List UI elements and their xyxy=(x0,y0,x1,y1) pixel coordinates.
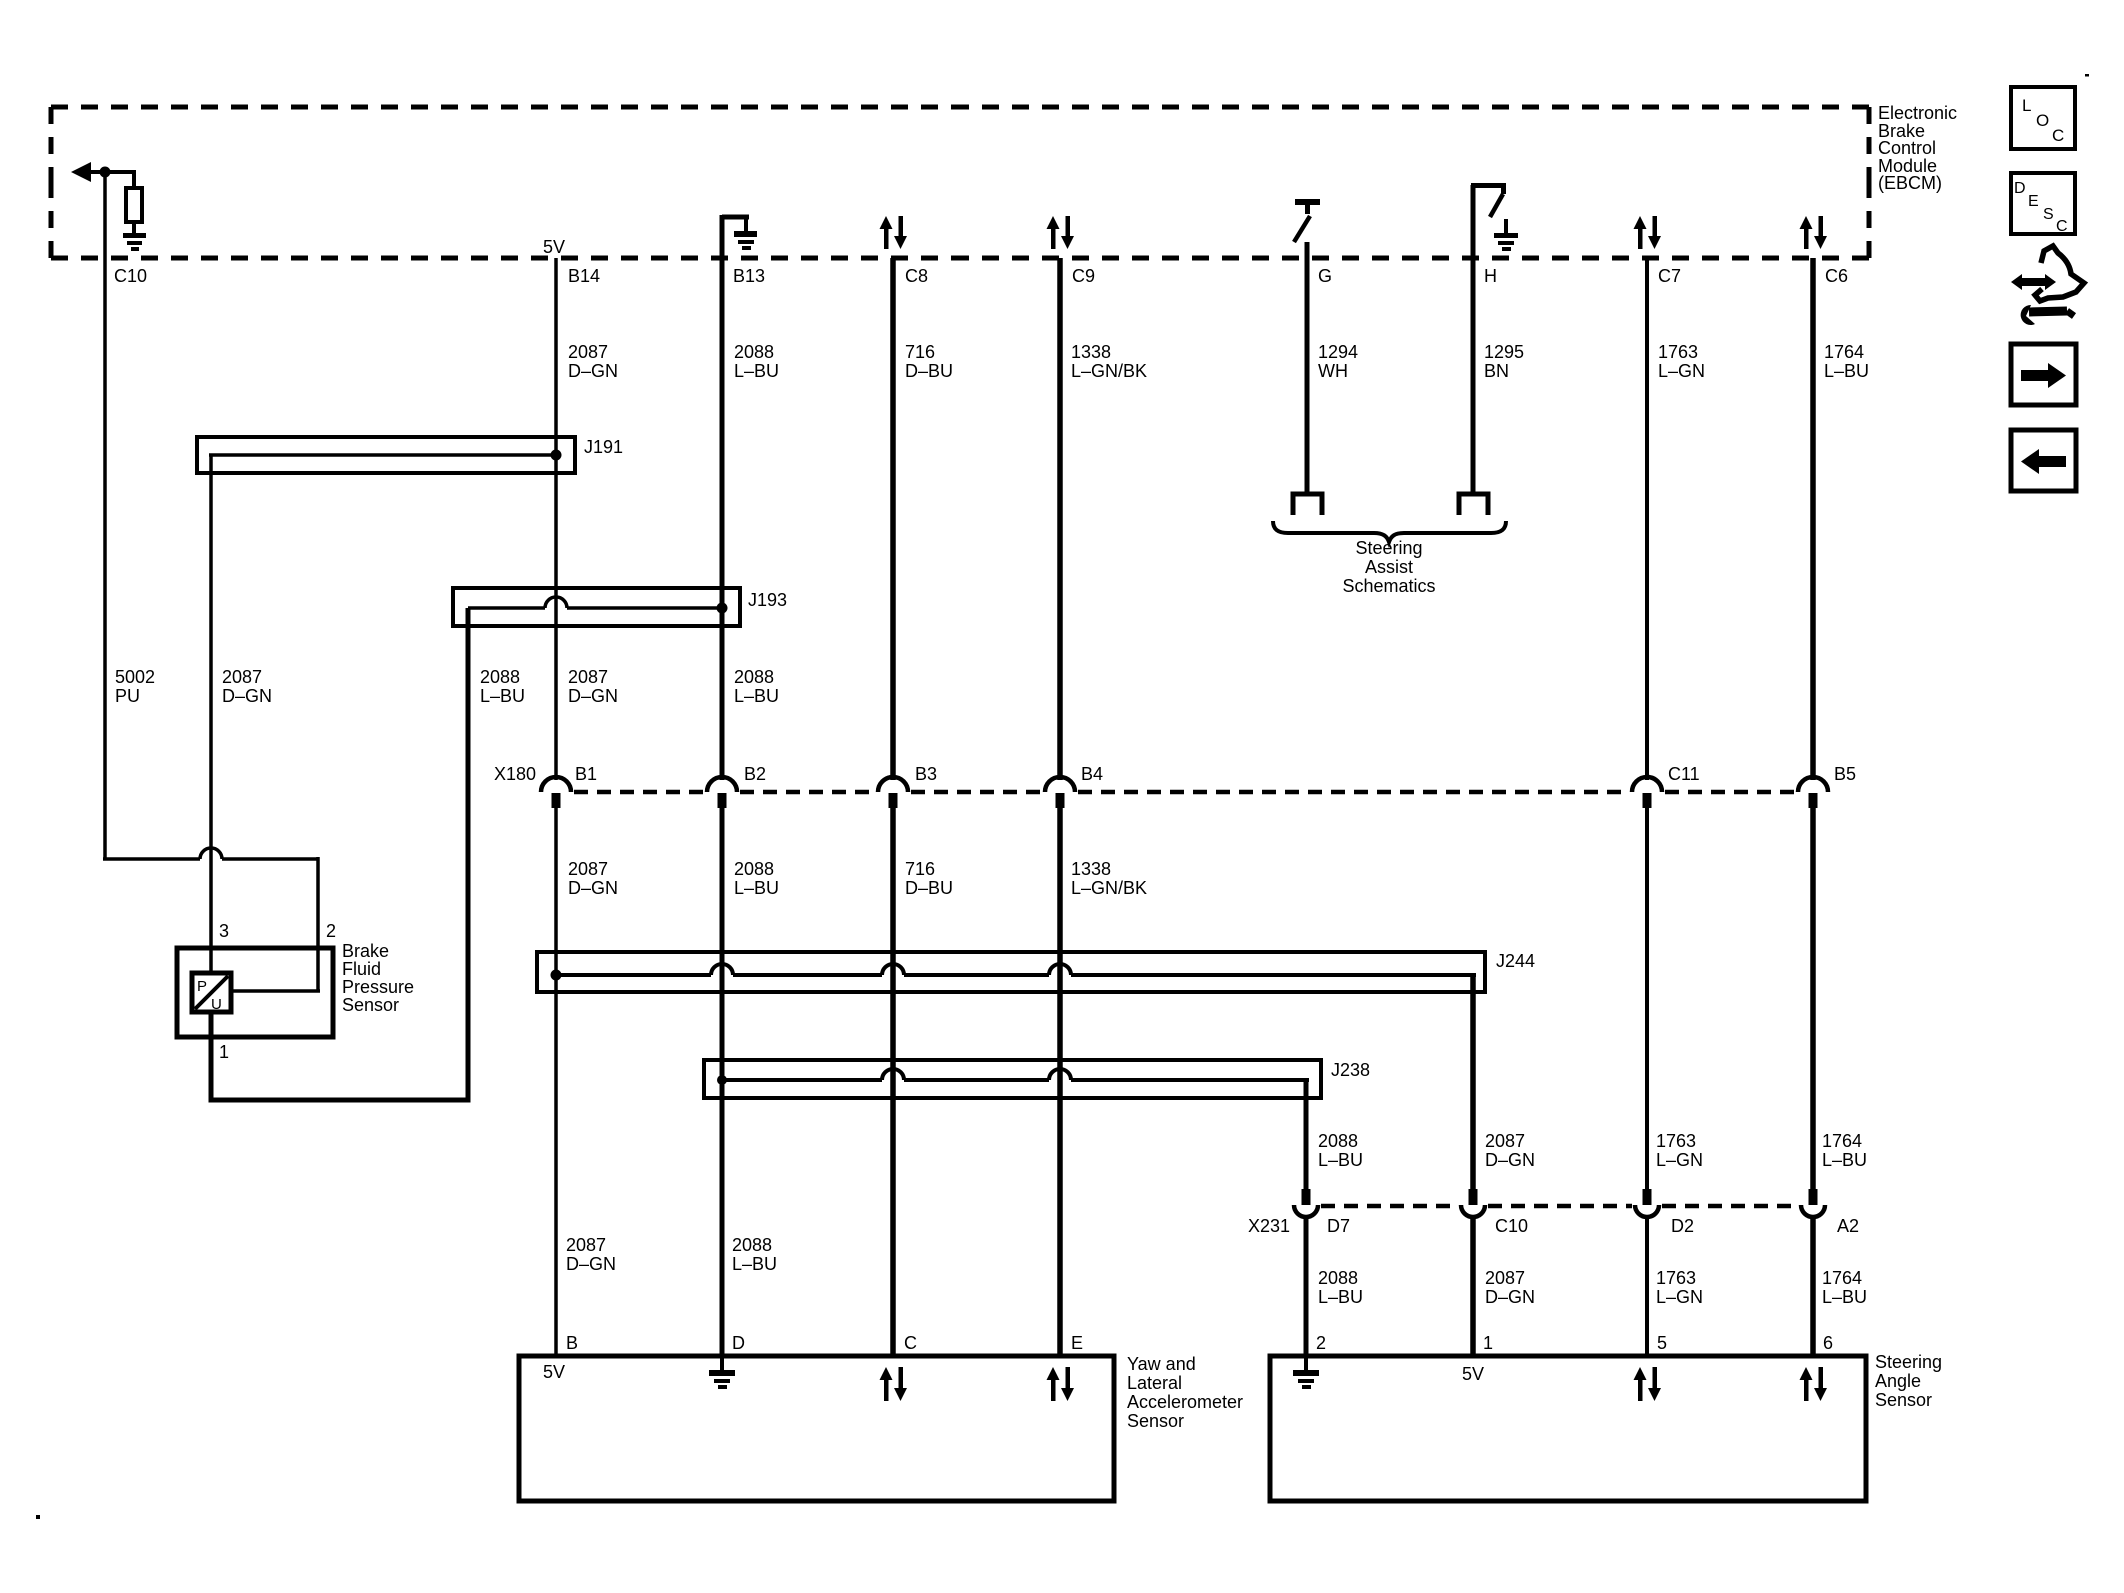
svg-text:2087: 2087 xyxy=(1485,1268,1525,1288)
connector X180 terminal B3 xyxy=(878,777,908,808)
svg-text:Lateral: Lateral xyxy=(1127,1373,1182,1393)
svg-text:L–GN: L–GN xyxy=(1658,361,1705,381)
svg-text:E: E xyxy=(1071,1333,1083,1353)
svg-text:G: G xyxy=(1318,266,1332,286)
splice pack J238 internal bus wire with hops xyxy=(722,1069,1309,1080)
splice J191 internal bus wire xyxy=(209,453,556,457)
svg-text:2088: 2088 xyxy=(1318,1131,1358,1151)
svg-text:E: E xyxy=(2028,193,2039,210)
EBCM pin labels along bottom edge xyxy=(114,237,1848,286)
svg-text:D–GN: D–GN xyxy=(568,361,618,381)
svg-text:L–BU: L–BU xyxy=(734,878,779,898)
wire 1338 L-GN/BK label (below X180) xyxy=(1071,859,1147,898)
svg-text:WH: WH xyxy=(1318,361,1348,381)
bidirectional signal arrows inside EBCM at pin C8 xyxy=(880,216,908,249)
wire from P/U element to sensor pin 2 xyxy=(231,989,320,993)
svg-text:C8: C8 xyxy=(905,266,928,286)
svg-text:Steering: Steering xyxy=(1875,1352,1942,1372)
wire 2087 D-GN branch from J191 down to sensor pin 3 xyxy=(209,455,213,975)
Steering Angle Sensor label xyxy=(1875,1352,1942,1410)
wire 2088 L-BU from EBCM pin B13 down to Yaw sensor pin D xyxy=(720,215,725,780)
forward navigation button xyxy=(2011,344,2076,405)
svg-text:O: O xyxy=(2036,111,2049,130)
ground symbol inside Yaw sensor at pin D xyxy=(709,1358,735,1389)
svg-text:1763: 1763 xyxy=(1658,342,1698,362)
wire 1295 BN from EBCM pin H down to steering assist xyxy=(1471,215,1476,494)
wire 2087 D-GN from EBCM pin B14 down to Yaw sensor pin B xyxy=(554,258,558,780)
svg-text:2088: 2088 xyxy=(732,1235,772,1255)
back navigation button xyxy=(2011,430,2076,491)
wire 1764 L-BU from EBCM pin C6 down to steering angle sensor pin 6 xyxy=(1810,258,1816,780)
svg-text:S: S xyxy=(2043,206,2054,223)
svg-text:L: L xyxy=(2022,96,2031,115)
harness view icon (double arrow, outline, wrench) xyxy=(2011,246,2084,325)
svg-text:L–BU: L–BU xyxy=(480,686,525,706)
svg-text:Control: Control xyxy=(1878,138,1936,158)
splice pack J244 outline xyxy=(537,952,1485,992)
wire 1338 L-GN/BK from EBCM pin C9 down to Yaw sensor pin E xyxy=(1057,258,1063,780)
svg-text:3: 3 xyxy=(219,921,229,941)
connector X231 terminal D7 xyxy=(1294,1189,1318,1217)
ground symbol inside EBCM below resistor xyxy=(123,222,146,251)
svg-text:D–GN: D–GN xyxy=(1485,1150,1535,1170)
wire 2088 L-BU from J238 down to steering angle sensor pin 2 xyxy=(1304,1080,1309,1190)
wire 2088 L-BU label (upper) xyxy=(734,342,779,381)
svg-text:716: 716 xyxy=(905,342,935,362)
svg-text:L–BU: L–BU xyxy=(1318,1150,1363,1170)
svg-text:L–GN: L–GN xyxy=(1656,1150,1703,1170)
svg-text:B3: B3 xyxy=(915,764,937,784)
svg-text:D–GN: D–GN xyxy=(1485,1287,1535,1307)
wire 2088 L-BU branch from J193 down to bottom run xyxy=(466,608,471,1102)
ground symbol inside EBCM at pin B13 xyxy=(734,231,757,250)
svg-text:2: 2 xyxy=(326,921,336,941)
splice J191 outline xyxy=(197,437,575,473)
wire 1763 L-GN from EBCM pin C7 down to steering angle sensor pin 5 xyxy=(1645,258,1649,780)
svg-text:Yaw and: Yaw and xyxy=(1127,1354,1196,1374)
svg-text:D–GN: D–GN xyxy=(568,686,618,706)
svg-text:2087: 2087 xyxy=(568,667,608,687)
svg-text:2088: 2088 xyxy=(734,342,774,362)
wire 1763 L-GN label (above X231) xyxy=(1656,1131,1703,1170)
svg-text:L–GN: L–GN xyxy=(1656,1287,1703,1307)
off-page pigtail under wire 1294 xyxy=(1293,494,1322,515)
svg-text:Fluid: Fluid xyxy=(342,959,381,979)
svg-text:Pressure: Pressure xyxy=(342,977,414,997)
svg-text:H: H xyxy=(1484,266,1497,286)
svg-text:C: C xyxy=(2056,218,2068,235)
junction node on C10 net xyxy=(100,167,111,178)
svg-text:1295: 1295 xyxy=(1484,342,1524,362)
wire 1338 L-GN/BK label (upper) xyxy=(1071,342,1147,381)
EBCM name label xyxy=(1878,103,1957,193)
svg-text:D–GN: D–GN xyxy=(566,1254,616,1274)
svg-text:C: C xyxy=(2052,126,2064,145)
bidirectional signal arrows inside EBCM at pin C9 xyxy=(1047,216,1075,249)
switch to ground symbol inside EBCM at pin H xyxy=(1471,183,1506,217)
wire 716 D-BU from EBCM pin C8 down to Yaw sensor pin C xyxy=(890,258,896,780)
junction dot J191 on wire 2087 xyxy=(551,450,562,461)
Brake Fluid Pressure Sensor box xyxy=(177,948,333,1037)
svg-text:1338: 1338 xyxy=(1071,859,1111,879)
svg-text:PU: PU xyxy=(115,686,140,706)
svg-text:J191: J191 xyxy=(584,437,623,457)
svg-text:D: D xyxy=(732,1333,745,1353)
svg-text:B2: B2 xyxy=(744,764,766,784)
splice J193 outline xyxy=(453,588,740,626)
svg-text:B: B xyxy=(566,1333,578,1353)
svg-text:1764: 1764 xyxy=(1824,342,1864,362)
svg-text:BN: BN xyxy=(1484,361,1509,381)
bidirectional signal arrows inside Yaw sensor at pin E xyxy=(1047,1367,1075,1401)
wire 2087 D-GN branch label xyxy=(222,667,272,706)
splice pack J244 internal bus wire with hops xyxy=(556,964,1476,975)
svg-text:B14: B14 xyxy=(568,266,600,286)
svg-text:L–BU: L–BU xyxy=(1822,1287,1867,1307)
svg-text:1764: 1764 xyxy=(1822,1268,1862,1288)
resistor R (pull-up inside EBCM) xyxy=(126,172,142,222)
svg-text:1: 1 xyxy=(1483,1333,1493,1353)
wire 2088 L-BU branch label xyxy=(480,667,525,706)
svg-text:B13: B13 xyxy=(733,266,765,286)
wire 2088 L-BU bottom horizontal run from pin 1 to J193 branch xyxy=(209,1098,471,1103)
svg-text:D2: D2 xyxy=(1671,1216,1694,1236)
svg-text:2087: 2087 xyxy=(1485,1131,1525,1151)
svg-text:2088: 2088 xyxy=(1318,1268,1358,1288)
svg-text:2087: 2087 xyxy=(568,342,608,362)
inline connector X231 dashed tie line xyxy=(1321,1204,1799,1209)
ground symbol inside EBCM at pin H xyxy=(1494,219,1518,251)
svg-text:B1: B1 xyxy=(575,764,597,784)
svg-text:D–BU: D–BU xyxy=(905,361,953,381)
internal signal arrow pointing left inside EBCM xyxy=(71,162,136,182)
ground symbol inside Steering sensor at pin 2 xyxy=(1293,1358,1319,1389)
svg-text:P: P xyxy=(197,978,207,995)
wire 2087 D-GN label (below X180) xyxy=(568,859,618,898)
svg-text:B5: B5 xyxy=(1834,764,1856,784)
svg-text:Schematics: Schematics xyxy=(1342,576,1435,596)
svg-text:L–GN/BK: L–GN/BK xyxy=(1071,361,1147,381)
svg-text:L–BU: L–BU xyxy=(1824,361,1869,381)
connector X231 terminal D2 xyxy=(1635,1189,1659,1217)
wire 1764 L-BU label (upper) xyxy=(1824,342,1869,381)
stray print artifact top right xyxy=(2085,74,2089,77)
svg-text:5: 5 xyxy=(1657,1333,1667,1353)
svg-text:Assist: Assist xyxy=(1365,557,1413,577)
stray print artifact bottom left xyxy=(36,1515,40,1519)
wire 2088 L-BU label (below J193) xyxy=(734,667,779,706)
bidirectional signal arrows inside Steering sensor at pin 5 xyxy=(1634,1367,1662,1401)
svg-text:5V: 5V xyxy=(543,237,565,257)
junction dot J238 on wire 2088 xyxy=(717,1075,727,1085)
svg-text:C6: C6 xyxy=(1825,266,1848,286)
wire 5002 PU from EBCM pin C10 (vertical) xyxy=(103,172,107,859)
svg-text:2087: 2087 xyxy=(568,859,608,879)
junction dot J193 on wire 2088 xyxy=(717,603,728,614)
svg-text:X180: X180 xyxy=(494,764,536,784)
wire 1294 WH from EBCM pin G down to steering assist xyxy=(1305,242,1310,494)
wire 1763 L-GN label (upper) xyxy=(1658,342,1705,381)
bidirectional signal arrows inside Steering sensor at pin 6 xyxy=(1800,1367,1828,1401)
svg-text:D–GN: D–GN xyxy=(222,686,272,706)
svg-text:1764: 1764 xyxy=(1822,1131,1862,1151)
off-page pigtail under wire 1295 xyxy=(1459,494,1488,515)
svg-text:2088: 2088 xyxy=(480,667,520,687)
wire 1764 L-BU label (below X231) xyxy=(1822,1268,1867,1307)
svg-text:(EBCM): (EBCM) xyxy=(1878,173,1942,193)
svg-text:716: 716 xyxy=(905,859,935,879)
wire 2088 L-BU label (below X231) xyxy=(1318,1268,1363,1307)
svg-text:L–BU: L–BU xyxy=(734,361,779,381)
Yaw and Lateral Accelerometer Sensor box xyxy=(519,1356,1114,1501)
pressure transducer P/U element xyxy=(192,973,231,1013)
svg-text:D7: D7 xyxy=(1327,1216,1350,1236)
svg-text:J193: J193 xyxy=(748,590,787,610)
splice J193 internal bus wire with hop over wire 2087 xyxy=(468,597,722,608)
svg-text:1763: 1763 xyxy=(1656,1131,1696,1151)
svg-text:C7: C7 xyxy=(1658,266,1681,286)
svg-text:6: 6 xyxy=(1823,1333,1833,1353)
wire 2087 D-GN label (above X231) xyxy=(1485,1131,1535,1170)
svg-text:2088: 2088 xyxy=(734,667,774,687)
wire 2087 D-GN label (above Yaw sensor) xyxy=(566,1235,616,1274)
svg-text:C9: C9 xyxy=(1072,266,1095,286)
svg-text:Sensor: Sensor xyxy=(1875,1390,1932,1410)
wire 2087 D-GN label (below X231) xyxy=(1485,1268,1535,1307)
connector X231 terminal A2 xyxy=(1801,1189,1825,1217)
wire 1763 L-GN label (below X231) xyxy=(1656,1268,1703,1307)
svg-text:A2: A2 xyxy=(1837,1216,1859,1236)
svg-text:U: U xyxy=(211,996,222,1013)
bidirectional signal arrows inside EBCM at pin C6 xyxy=(1800,216,1828,249)
ground turn at top of wire 2088 (EBCM internal) xyxy=(722,217,749,233)
svg-text:D–GN: D–GN xyxy=(568,878,618,898)
wire 2087 D-GN from J244 down to steering angle sensor pin 1 xyxy=(1470,975,1476,1190)
svg-text:5V: 5V xyxy=(1462,1364,1484,1384)
wire 2088 L-BU label (below X180) xyxy=(734,859,779,898)
svg-text:5V: 5V xyxy=(543,1362,565,1382)
svg-text:B4: B4 xyxy=(1081,764,1103,784)
svg-text:C10: C10 xyxy=(114,266,147,286)
svg-text:L–GN/BK: L–GN/BK xyxy=(1071,878,1147,898)
connector X180 terminal B5 xyxy=(1798,777,1828,808)
svg-text:Accelerometer: Accelerometer xyxy=(1127,1392,1243,1412)
svg-text:X231: X231 xyxy=(1248,1216,1290,1236)
svg-text:Sensor: Sensor xyxy=(1127,1411,1184,1431)
svg-text:D: D xyxy=(2014,180,2026,197)
svg-text:2088: 2088 xyxy=(734,859,774,879)
svg-text:J244: J244 xyxy=(1496,951,1535,971)
wire 2087 D-GN label (upper) xyxy=(568,342,618,381)
svg-text:1338: 1338 xyxy=(1071,342,1111,362)
svg-text:L–BU: L–BU xyxy=(1822,1150,1867,1170)
svg-text:L–BU: L–BU xyxy=(732,1254,777,1274)
Yaw and Lateral Accelerometer Sensor label xyxy=(1127,1354,1243,1431)
curly brace grouping steering assist wires xyxy=(1273,521,1506,542)
Steering Assist Schematics label xyxy=(1342,538,1435,596)
connector X180 terminal B2 xyxy=(707,777,737,808)
svg-text:D–BU: D–BU xyxy=(905,878,953,898)
svg-text:2: 2 xyxy=(1316,1333,1326,1353)
svg-text:C10: C10 xyxy=(1495,1216,1528,1236)
connector X180 terminal B1 xyxy=(541,777,571,808)
svg-text:5002: 5002 xyxy=(115,667,155,687)
LOC navigation button xyxy=(2011,87,2075,149)
wire 1295 BN label xyxy=(1484,342,1524,381)
svg-text:2087: 2087 xyxy=(222,667,262,687)
svg-text:1294: 1294 xyxy=(1318,342,1358,362)
wire 1294 WH label xyxy=(1318,342,1358,381)
Electronic Brake Control Module (EBCM) dashed outline box xyxy=(51,107,1869,258)
connector X180 terminal C11 xyxy=(1632,777,1662,808)
DESC navigation button xyxy=(2011,173,2075,235)
wire 716 D-BU label (upper) xyxy=(905,342,953,381)
splice pack J238 outline xyxy=(704,1060,1321,1098)
wire from sensor pin 1 to bottom horizontal run xyxy=(209,1012,214,1102)
svg-text:Angle: Angle xyxy=(1875,1371,1921,1391)
wire 5002 PU horizontal run to sensor pin 2 with crossover hop xyxy=(103,848,318,991)
svg-text:1763: 1763 xyxy=(1656,1268,1696,1288)
Steering Angle Sensor box xyxy=(1270,1356,1866,1501)
wire 5002 PU label xyxy=(115,667,155,706)
connector X180 terminal B4 xyxy=(1045,777,1075,808)
svg-text:C: C xyxy=(904,1333,917,1353)
switch contact symbol inside EBCM at pin G xyxy=(1294,199,1320,242)
wire 2087 D-GN label (below J193) xyxy=(568,667,618,706)
svg-text:Steering: Steering xyxy=(1355,538,1422,558)
wire 716 D-BU label (below X180) xyxy=(905,859,953,898)
svg-text:Brake: Brake xyxy=(342,941,389,961)
svg-text:Electronic: Electronic xyxy=(1878,103,1957,123)
wire 2088 L-BU label (above Yaw sensor) xyxy=(732,1235,777,1274)
inline connector X180 dashed tie line xyxy=(574,790,1796,795)
svg-text:C11: C11 xyxy=(1668,764,1700,784)
junction dot J244 on wire 2087 xyxy=(551,970,562,981)
svg-text:L–BU: L–BU xyxy=(1318,1287,1363,1307)
svg-text:L–BU: L–BU xyxy=(734,686,779,706)
svg-text:J238: J238 xyxy=(1331,1060,1370,1080)
wire 2088 L-BU label (above X231) xyxy=(1318,1131,1363,1170)
svg-text:2087: 2087 xyxy=(566,1235,606,1255)
wire 1764 L-BU label (above X231) xyxy=(1822,1131,1867,1170)
svg-text:Sensor: Sensor xyxy=(342,995,399,1015)
bidirectional signal arrows inside EBCM at pin C7 xyxy=(1634,216,1662,249)
connector X231 terminal C10 xyxy=(1461,1189,1485,1217)
Brake Fluid Pressure Sensor label xyxy=(342,941,414,1015)
svg-text:1: 1 xyxy=(219,1042,229,1062)
bidirectional signal arrows inside Yaw sensor at pin C xyxy=(880,1367,908,1401)
